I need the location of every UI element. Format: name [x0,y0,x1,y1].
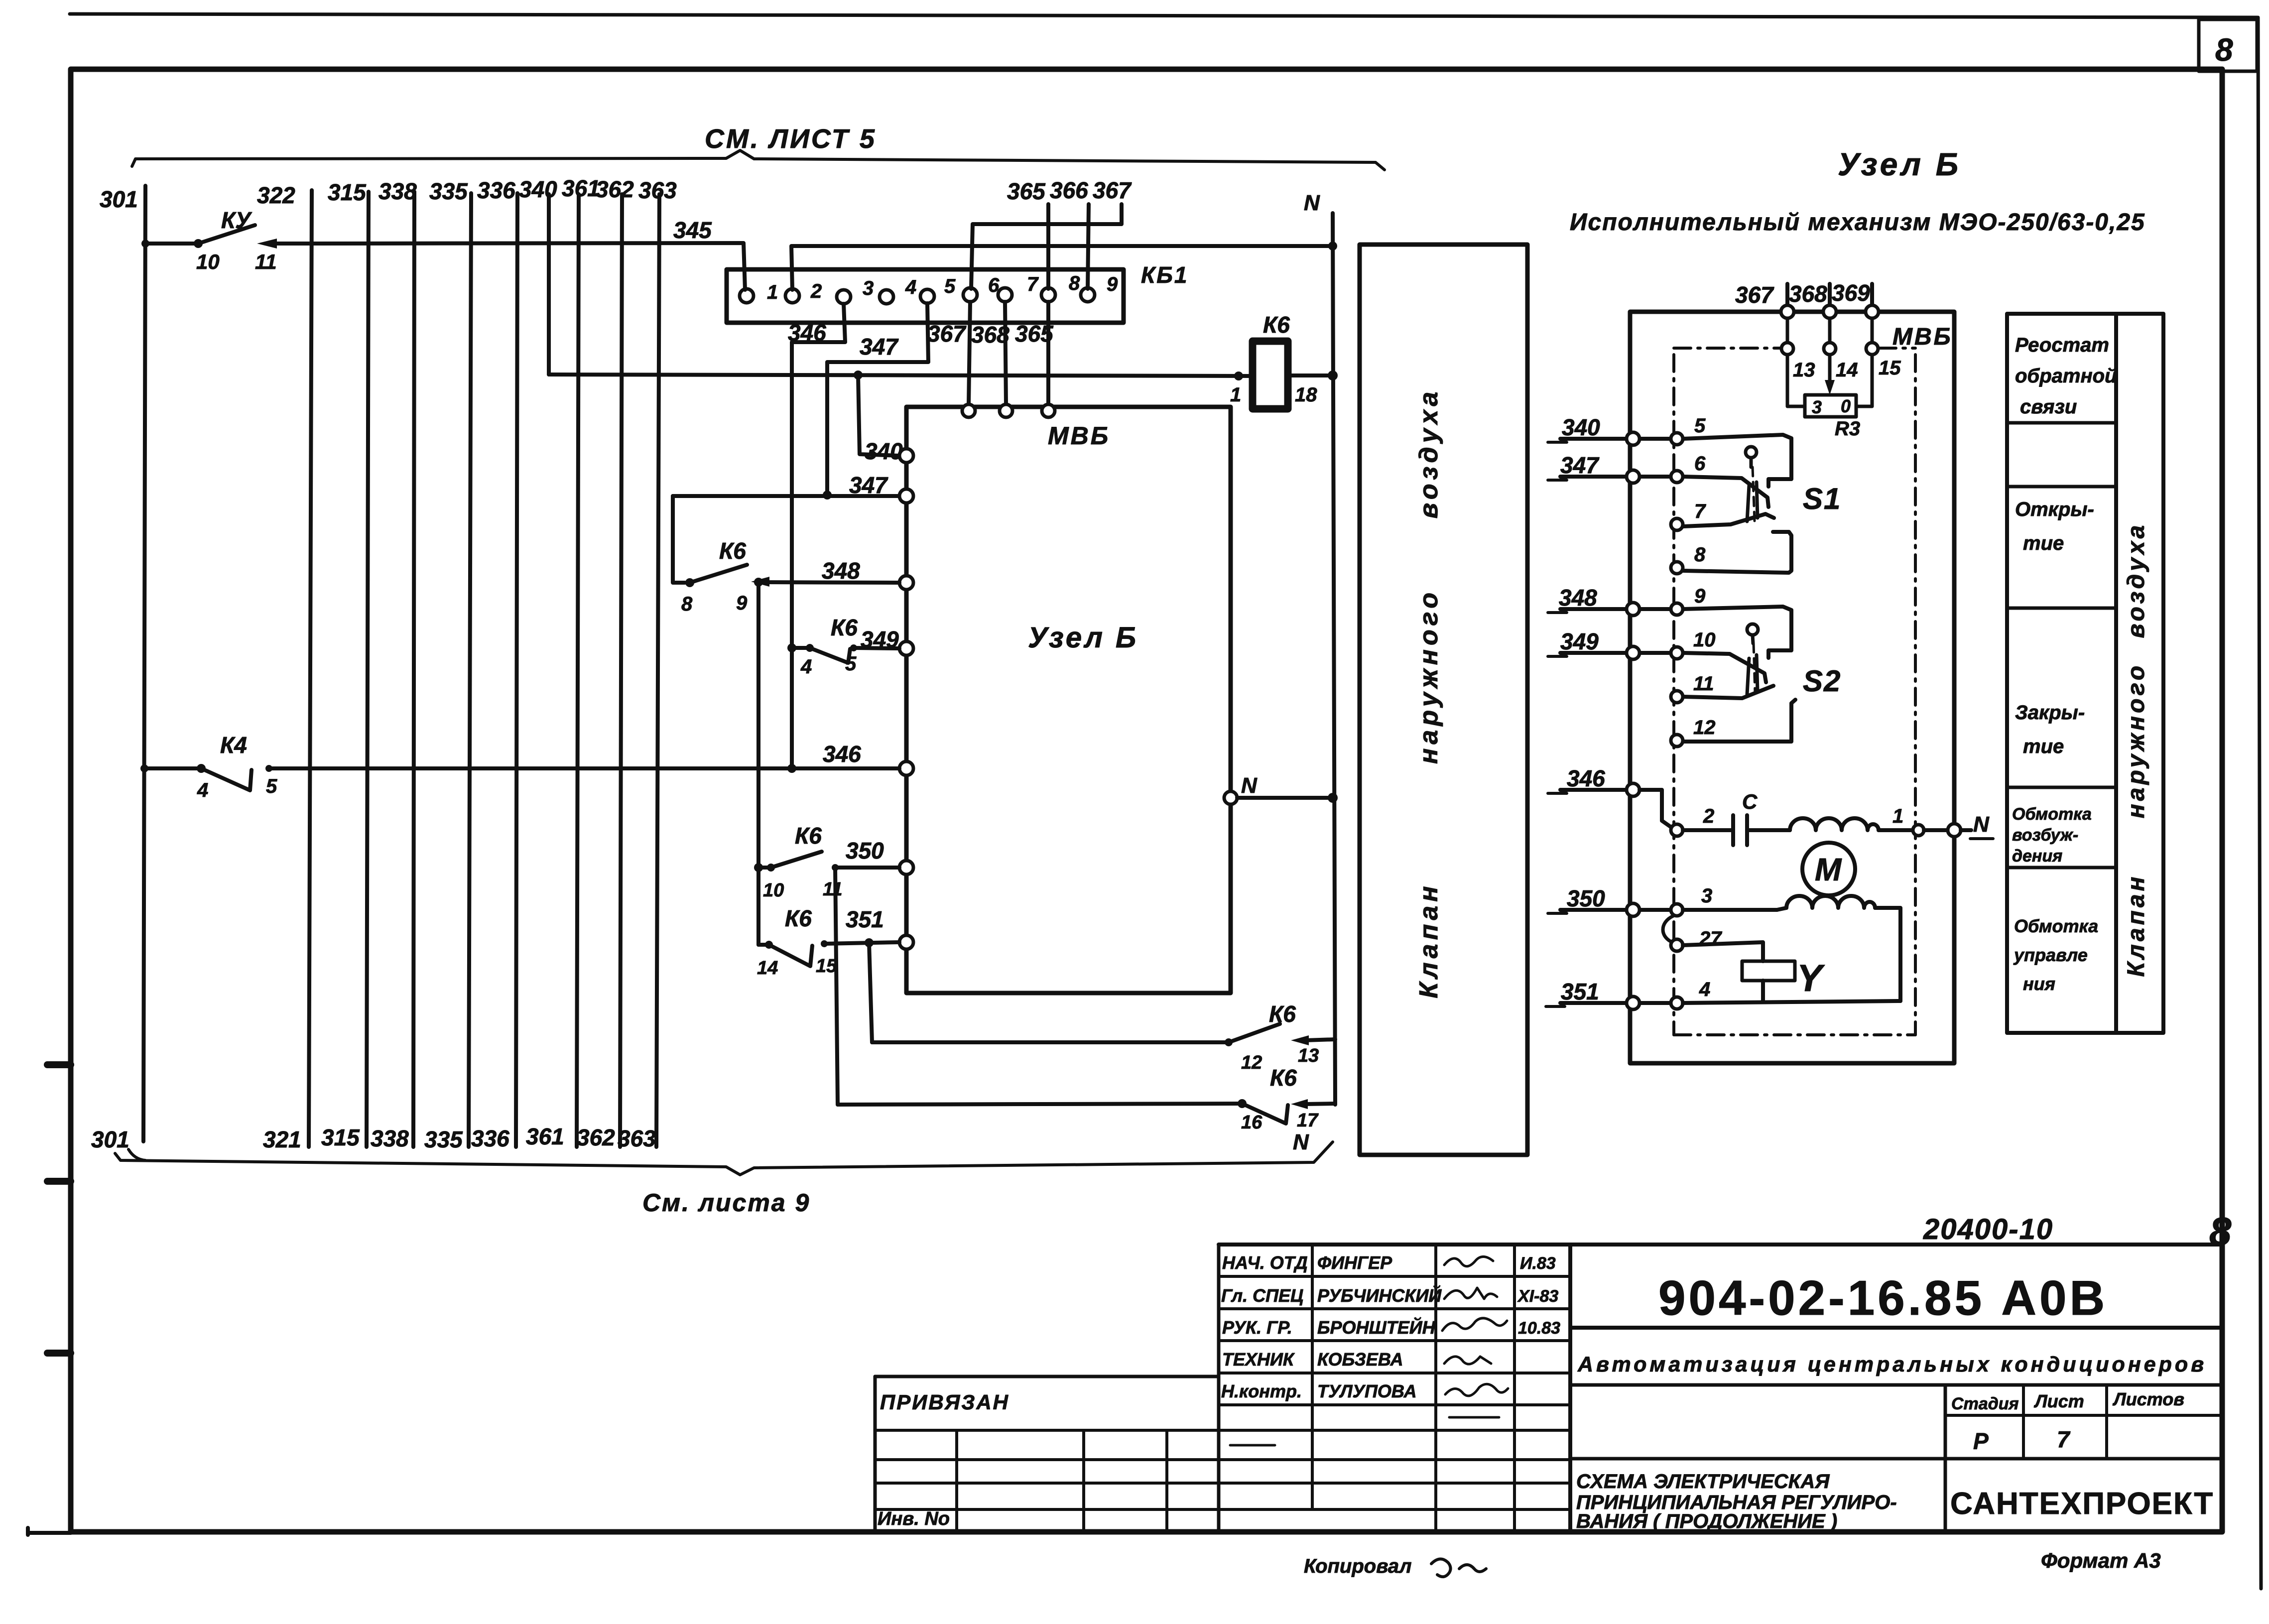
unit B box (MVB) [906,407,1231,993]
svg-text:К6: К6 [1270,1065,1297,1091]
svg-text:РУК. ГР.: РУК. ГР. [1222,1317,1292,1338]
attachment table verticals [955,1430,958,1532]
control winding [1683,908,1777,912]
svg-text:301: 301 [100,186,138,212]
outside air valve box right [2116,314,2163,1033]
svg-text:МВБ: МВБ [1048,422,1110,450]
see sheet 5 brace [132,150,1385,170]
MVB terminal N right [1224,791,1237,804]
pin 9 [1671,603,1683,615]
bus 336 vertical wire [516,193,517,1147]
svg-text:Клапан: Клапан [1414,882,1443,998]
signature table rows [1219,1275,1570,1278]
pin 14 [1824,343,1836,355]
svg-text:Закры-: Закры- [2015,702,2085,724]
svg-text:11: 11 [1693,673,1714,695]
junction on 301 [141,240,149,248]
svg-text:367: 367 [1093,177,1132,203]
svg-text:346: 346 [1567,765,1605,791]
svg-text:тие: тие [2023,532,2064,554]
svg-text:345: 345 [673,217,712,243]
svg-text:Клапан: Клапан [2123,874,2149,977]
wire 346 from KB1-3 [792,304,845,768]
junction pin9 [754,578,763,587]
bus 315 vertical wire [367,192,369,1147]
svg-text:369: 369 [1832,280,1870,306]
svg-text:N: N [1973,812,1990,837]
svg-text:Инв. No: Инв. No [878,1508,950,1529]
contact KU pin10 dot [194,239,203,248]
bus 363 vertical wire [656,194,659,1147]
KB1 terminal 8 [1041,288,1055,302]
svg-text:362: 362 [577,1124,615,1150]
wire pin14 wiper arrow [1828,355,1832,388]
svg-text:10: 10 [1693,629,1716,651]
svg-text:тие: тие [2023,736,2064,757]
svg-text:12: 12 [1693,717,1716,739]
svg-text:365: 365 [1015,321,1054,347]
svg-text:C: C [1742,790,1758,813]
svg-text:340: 340 [519,176,557,202]
svg-text:348: 348 [1559,585,1597,611]
MVB right terminal [1948,824,1961,837]
wire 346 to pin 2 [1639,790,1672,828]
bus 301 vertical wire [143,186,145,1141]
svg-text:338: 338 [371,1125,409,1151]
svg-text:М: М [1815,852,1842,887]
svg-text:Реостат: Реостат [2015,334,2109,356]
svg-text:КОБЗЕВА: КОБЗЕВА [1317,1349,1403,1370]
bus 361 vertical wire [577,194,579,1147]
leader from 301 label to brace [128,1149,145,1160]
svg-text:18: 18 [1295,384,1317,406]
svg-text:13: 13 [1298,1045,1319,1066]
wire 367 from label jog to KB1-6 [971,204,1122,289]
wire coil to N [1288,374,1333,377]
svg-text:Формат А3: Формат А3 [2041,1549,2161,1572]
frame tick mark 1 [47,1061,71,1068]
svg-text:10: 10 [196,250,220,273]
wire 340 vertical from top [547,194,551,375]
excitation winding [1790,818,1879,830]
junction 351 branch [865,938,874,947]
svg-text:7: 7 [2057,1426,2071,1452]
svg-text:Обмотка: Обмотка [2012,805,2092,824]
KB1 terminal 4 [880,290,893,304]
stage table [1944,1385,1947,1532]
svg-text:СМ. ЛИСТ 5: СМ. ЛИСТ 5 [705,124,877,154]
wire winding to N [1879,828,1912,832]
wire 346 long horizontal [269,766,899,770]
wire 340 row [1560,437,1670,441]
svg-text:315: 315 [328,179,367,205]
pin 10 [1671,647,1683,659]
svg-text:Стадия: Стадия [1951,1394,2019,1413]
signatures scribbles [1444,1256,1493,1266]
KB1 terminal 9 [1081,288,1095,302]
svg-text:363: 363 [638,177,677,203]
svg-text:361: 361 [562,175,600,201]
svg-text:5: 5 [845,653,857,675]
svg-text:368: 368 [971,322,1009,348]
attachment table left edge [874,1376,877,1532]
svg-text:Гл. СПЕЦ: Гл. СПЕЦ [1221,1285,1303,1306]
wire pin9 down [756,582,760,945]
inner mechanism dash-dot boundary [1674,348,1915,1035]
junction N wire [1328,793,1338,803]
contact K6 4-5 [787,643,796,652]
svg-text:Автоматизация центральных ко: Автоматизация центральных кондиционеров [1577,1353,2207,1376]
svg-text:17: 17 [1297,1110,1319,1131]
contact K6 8-9 [673,496,685,583]
svg-text:9: 9 [1107,273,1118,295]
svg-text:ТЕХНИК: ТЕХНИК [1222,1349,1295,1370]
bus 362 vertical wire [620,194,622,1147]
svg-text:Н.контр.: Н.контр. [1221,1381,1302,1401]
svg-text:Р: Р [1973,1428,1989,1454]
bus 322 vertical wire [309,190,312,1147]
wire N from MVB [1237,796,1333,800]
svg-text:дения: дения [2012,847,2062,866]
divider under close cell [2007,786,2116,789]
svg-text:К4: К4 [220,732,247,758]
svg-text:управле: управле [2013,945,2088,965]
svg-text:N: N [1304,191,1320,215]
svg-text:336: 336 [471,1125,509,1151]
svg-text:346: 346 [788,320,826,346]
svg-text:5: 5 [944,275,956,297]
svg-text:4: 4 [800,656,812,678]
MVB terminal 348 [899,576,913,590]
svg-text:Узел Б: Узел Б [1838,146,1961,182]
wire 367 stub [1785,284,1789,306]
svg-text:11: 11 [823,879,842,900]
svg-text:8: 8 [1069,272,1080,294]
junction N bus [1328,242,1337,250]
svg-text:XI-83: XI-83 [1517,1287,1558,1306]
junction coil N [1328,371,1338,380]
svg-text:ния: ния [2023,974,2055,994]
svg-text:К6: К6 [795,823,822,849]
svg-text:14: 14 [757,958,778,979]
svg-text:11: 11 [255,250,277,273]
terminal on dash line [1913,825,1924,836]
svg-text:НАЧ. ОТД: НАЧ. ОТД [1222,1252,1308,1273]
svg-text:ПРИВЯЗАН: ПРИВЯЗАН [880,1390,1009,1414]
svg-text:К6: К6 [1263,312,1290,338]
svg-text:4: 4 [1699,979,1710,1000]
wire 340 horizontal to relay K6 [549,375,1253,376]
MVB top terminal 368 [1000,404,1012,417]
wire 351 branch down [869,943,872,1042]
MVB edge terminal 340 [1627,432,1639,445]
junction 346 riser [787,764,796,773]
MVB edge terminal 350 [1627,903,1639,916]
svg-text:347: 347 [849,472,888,498]
svg-text:8: 8 [2209,1209,2232,1253]
svg-text:9: 9 [1694,585,1706,607]
MVB terminal 350 [899,861,913,874]
svg-text:РУБЧИНСКИЙ: РУБЧИНСКИЙ [1317,1285,1442,1306]
svg-text:367: 367 [927,321,967,347]
resistor R3 [1805,395,1856,417]
wire 340 branch down to MVB [858,375,899,456]
svg-text:К6: К6 [719,538,746,564]
svg-text:ФИНГЕР: ФИНГЕР [1317,1252,1392,1273]
svg-text:ТУЛУПОВА: ТУЛУПОВА [1317,1381,1417,1401]
svg-text:350: 350 [1567,885,1605,911]
divider under excitation cell [2007,866,2116,870]
wire to N label [1961,828,1971,832]
wire 365 from label to KB1-8 [1046,204,1050,289]
svg-text:0: 0 [1841,396,1851,416]
MVB top terminal 369 [1866,305,1879,318]
svg-text:КУ: КУ [221,207,252,233]
svg-text:350: 350 [846,838,884,864]
MVB top terminal 365 [1042,404,1055,417]
svg-text:10.83: 10.83 [1518,1319,1560,1338]
wire 345 horizontal top bus [145,242,198,246]
svg-text:N: N [1293,1130,1309,1154]
MVB terminal 340 [899,449,913,463]
svg-text:1: 1 [1230,384,1241,406]
switch S2 [1683,607,1791,658]
svg-text:361: 361 [526,1124,564,1149]
capacitor C [1683,828,1733,832]
svg-text:335: 335 [429,178,468,204]
svg-text:СХЕМА ЭЛЕКТРИЧЕСКАЯ: СХЕМА ЭЛЕКТРИЧЕСКАЯ [1576,1471,1830,1493]
wire winding right down [1875,908,1900,1001]
copier signature scribble [1431,1559,1486,1577]
svg-text:301: 301 [91,1126,129,1152]
svg-text:15: 15 [1879,357,1901,379]
wire 351 row [1560,1001,1670,1005]
svg-text:Y: Y [1797,957,1825,999]
svg-text:315: 315 [321,1124,360,1150]
svg-text:366: 366 [1050,177,1088,203]
KB1 terminal 2 [785,289,799,303]
pin 6 [1671,471,1683,483]
svg-text:Исполнительный механизм МЭО-2: Исполнительный механизм МЭО-250/63-0,25 [1570,209,2145,236]
wire 346 row [1560,788,1627,792]
MVB edge terminal 346 [1627,783,1639,796]
svg-text:340: 340 [1562,414,1600,440]
divider above open cell [2007,485,2116,489]
frame tick mark 3 [47,1350,71,1357]
svg-text:4: 4 [905,276,916,298]
svg-text:S2: S2 [1803,664,1841,698]
MVB terminal 351 [899,935,913,949]
svg-text:904-02-16.85 А0В: 904-02-16.85 А0В [1658,1270,2108,1325]
wire 350 row [1560,908,1670,912]
svg-text:367: 367 [1735,282,1774,308]
pin 3 [1671,904,1683,916]
contact K6 10-11 [754,863,763,872]
contact K6 16-17 [838,1104,1242,1105]
svg-text:См. листа 9: См. листа 9 [642,1189,810,1217]
MVB terminal 347 [899,489,913,503]
wire 368 stub [1828,284,1832,306]
svg-text:335: 335 [424,1126,463,1152]
wire 367 KB1-6 to MVB [969,302,970,404]
svg-text:5: 5 [266,775,277,797]
divider under rheostat cell [2007,421,2116,425]
wire 345 continues to KB1 [299,243,745,290]
svg-text:365: 365 [1007,178,1046,204]
svg-text:К6: К6 [785,905,812,931]
svg-text:S1: S1 [1803,482,1841,515]
svg-text:И.83: И.83 [1520,1254,1556,1273]
svg-text:7: 7 [1694,500,1706,522]
svg-text:К6: К6 [1269,1001,1296,1027]
divider under open cell [2007,607,2116,610]
pin 4 [1671,997,1683,1009]
wire 348 to MVB [758,582,899,583]
wire 368 KB1-7 to MVB [1005,302,1006,404]
KB1 terminal 3 [837,290,851,304]
svg-text:1: 1 [767,281,778,303]
svg-text:Листов: Листов [2112,1389,2184,1409]
contact KU pin11 arrow [257,239,277,249]
svg-text:16: 16 [1241,1112,1262,1133]
sheet outer top line [70,14,2257,17]
svg-text:3: 3 [863,277,874,299]
MVB top terminal 367 [1781,305,1794,318]
svg-text:7: 7 [1027,273,1039,295]
MVB top terminal 367 [962,404,975,417]
KB1 terminal 1 [740,289,754,303]
relay coil K6 [1253,341,1288,409]
junction 340 branch [854,371,863,379]
svg-text:8: 8 [2215,32,2233,68]
svg-text:362: 362 [596,176,634,202]
wire 366 from label to KB1-9 [1088,204,1089,289]
sheet outer right line [2258,17,2261,1589]
MVB terminal 349 [899,641,913,655]
svg-text:340: 340 [865,438,903,464]
wire N vertical [1333,213,1335,1105]
wire 347 row [1560,475,1670,479]
KB1 terminal 6 [963,288,977,302]
terminal block KB1 [727,269,1124,323]
MVB top terminal 368 [1823,305,1836,318]
svg-text:МВБ: МВБ [1892,324,1953,350]
contact K4 on 301 [140,764,148,772]
svg-text:4: 4 [197,779,208,801]
contact K6 12-13 [872,1040,1229,1044]
switch S1 [1683,435,1791,487]
pin 13 [1781,343,1793,355]
svg-text:3: 3 [1701,885,1712,907]
KB1 terminal 7 [998,288,1012,302]
dash in empty row [1449,1416,1499,1419]
svg-text:3: 3 [1812,397,1822,417]
svg-text:1: 1 [1892,805,1903,827]
MVB edge terminal 351 [1627,997,1639,1009]
svg-text:351: 351 [1561,979,1599,1004]
motor M [1802,843,1855,895]
pin 8 [1671,562,1683,574]
svg-text:9: 9 [736,592,748,614]
svg-text:338: 338 [378,178,417,204]
solenoid Y [1742,961,1795,981]
svg-text:воздуха: воздуха [1414,388,1443,519]
pin 2 [1671,824,1683,836]
pin 15 [1866,343,1878,355]
svg-text:349: 349 [861,626,899,652]
MVB detail box [1630,312,1954,1063]
bus 338 vertical wire [413,192,414,1147]
wire 27 to Y coil [1683,942,1763,961]
svg-text:8: 8 [681,593,693,615]
svg-text:346: 346 [823,741,861,767]
junction at K6 coil pin1 [1234,372,1243,380]
signature table outline [1217,1245,1221,1532]
pin 5 [1671,433,1683,445]
signature table columns [1311,1245,1314,1509]
line under project title [1570,1383,2220,1387]
wire 347 branch to MVB [673,494,899,498]
outside air valve box left [1360,245,1527,1155]
svg-text:2: 2 [1703,805,1714,827]
wire to pin 14 [1828,318,1832,343]
sheet number box top right [2199,19,2257,71]
title block top line left part [875,1375,1219,1378]
svg-text:ВАНИЯ ( ПРОДОЛЖЕНИЕ ): ВАНИЯ ( ПРОДОЛЖЕНИЕ ) [1576,1510,1837,1532]
svg-text:Лист: Лист [2033,1391,2084,1411]
MVB edge terminal 348 [1627,603,1639,616]
svg-text:КБ1: КБ1 [1141,262,1188,288]
svg-text:321: 321 [263,1126,301,1152]
svg-text:наружного: наружного [2123,663,2149,818]
wire 347 from KB1-5 [827,303,928,495]
svg-text:возбуж-: возбуж- [2012,826,2078,845]
pin 27 [1671,939,1683,951]
wire N bus from KB1 pin2 to N line [791,246,1333,290]
wire pin15 to R3 [1856,355,1872,406]
frame tick mark 2 [47,1178,71,1185]
wire 4 row [1683,1001,1900,1003]
svg-text:Узел Б: Узел Б [1028,622,1138,654]
svg-text:5: 5 [1694,415,1706,437]
wire 348 row [1560,607,1670,611]
pin 12 [1671,735,1683,747]
svg-text:Копировал: Копировал [1304,1555,1412,1577]
contact K6 14-15 [758,943,769,947]
pin 7 [1671,518,1683,530]
svg-text:обратной: обратной [2015,365,2117,387]
svg-text:20400-10: 20400-10 [1923,1213,2053,1246]
wire 365 KB1-8 to MVB [1046,302,1050,404]
KB1 terminal 5 [920,289,934,303]
svg-text:6: 6 [1694,453,1706,475]
bus 335 vertical wire [469,193,471,1147]
link pin3 to pin27 [1663,916,1673,943]
svg-text:наружного: наружного [1414,589,1443,764]
wire to pin 15 [1871,318,1874,343]
main title box line [1570,1326,2220,1330]
MVB terminal 346 [899,761,913,775]
wire to pin 13 [1786,318,1789,343]
svg-text:14: 14 [1836,359,1858,381]
svg-text:связи: связи [2020,396,2077,418]
svg-text:2: 2 [810,280,822,302]
wire 369 stub [1870,284,1874,306]
pin 11 [1671,691,1683,703]
svg-text:R3: R3 [1835,418,1860,440]
MVB edge terminal 349 [1627,646,1639,659]
svg-text:349: 349 [1560,628,1599,654]
